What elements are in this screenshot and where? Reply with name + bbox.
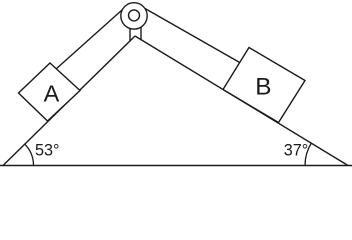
pulley mount left leg [129,28,131,42]
svg-text:53°: 53° [35,142,59,160]
block A [19,63,81,121]
pulley hub [129,10,140,21]
right incline (37 deg side) [135,36,348,166]
left incline (53 deg side) [3,36,135,166]
block B [223,48,305,123]
37 degree angle arc [305,143,311,165]
pulley outer wheel [121,3,147,29]
svg-text:B: B [255,74,271,101]
svg-text:A: A [44,80,60,106]
svg-text:37°: 37° [284,142,308,160]
wire: string from block A to pulley [56,10,122,69]
53 degree angle arc [25,144,34,165]
pulley mount right leg [140,27,142,40]
base line (ground) [0,165,352,167]
wire: string from pulley to block B [145,9,240,63]
